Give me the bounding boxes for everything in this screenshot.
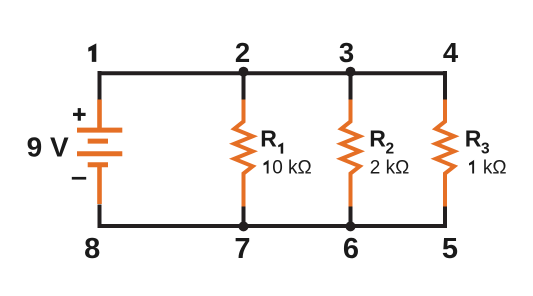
svg-text:R: R — [369, 125, 386, 151]
junction dot node 6 — [346, 221, 356, 231]
wire: right vertical black stub below node 4 — [443, 71, 447, 101]
wire: bottom rail node8-node5 — [100, 224, 446, 228]
resistor R3 zigzag — [436, 100, 454, 207]
svg-text:6: 6 — [343, 233, 359, 265]
svg-text:R: R — [465, 125, 482, 151]
svg-text:8: 8 — [84, 233, 100, 265]
battery plate long — [77, 151, 122, 156]
battery plate long (+) — [77, 128, 122, 133]
svg-text:5: 5 — [442, 233, 458, 265]
battery plate short — [88, 139, 108, 144]
svg-text:2 kΩ: 2 kΩ — [370, 158, 410, 179]
wire: black stub R2 to node6 — [349, 206, 353, 229]
svg-text:R: R — [260, 125, 277, 151]
value label 10 kOhm — [264, 160, 269, 174]
resistor R1 zigzag — [234, 100, 252, 207]
svg-text:4: 4 — [443, 37, 459, 68]
wire: black stub R1 to node7 — [242, 206, 246, 229]
battery B1 negative terminal lead wire — [97, 163, 102, 204]
svg-text:7: 7 — [234, 233, 250, 265]
svg-text:3: 3 — [481, 141, 490, 158]
svg-text:3: 3 — [339, 37, 354, 68]
battery minus sign — [72, 177, 86, 180]
wire: left vertical black stub below node 1 — [98, 71, 102, 101]
svg-text:9 V: 9 V — [27, 132, 69, 163]
value label 1 kOhm — [469, 160, 474, 174]
svg-text:2: 2 — [235, 37, 250, 68]
wire: black stub node2 to R1 — [242, 73, 246, 101]
resistor R2 zigzag — [341, 100, 359, 207]
junction dot node 3 — [346, 67, 356, 77]
battery plate short (-) — [88, 162, 108, 167]
wire: right vertical black stub above node 5 — [443, 205, 447, 229]
svg-text:0 kΩ: 0 kΩ — [272, 158, 312, 179]
svg-text:2: 2 — [386, 141, 395, 158]
wire: top rail node1-node4 — [100, 71, 446, 75]
svg-text:kΩ: kΩ — [483, 158, 507, 179]
junction dot node 2 — [239, 67, 249, 77]
wire: left vertical black stub above node 8 — [98, 205, 102, 229]
battery plus sign — [73, 113, 86, 116]
node label 1 — [88, 43, 96, 62]
battery B1 positive terminal lead wire — [97, 100, 102, 129]
wire: black stub node3 to R2 — [349, 73, 353, 101]
junction dot node 7 — [239, 221, 249, 231]
